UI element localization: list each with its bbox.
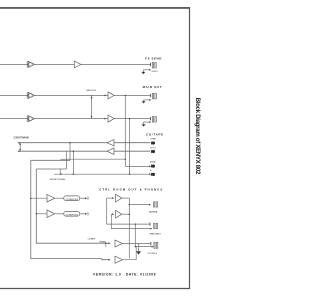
node bus bar A: [87, 197, 89, 200]
svg-text:L/MONO: L/MONO: [150, 161, 156, 163]
op-amp CD in R (left pointing): [107, 148, 114, 154]
svg-text:CD/TAPE: CD/TAPE: [88, 237, 97, 240]
svg-text:CTRL ROOM OUT & PHONES: CTRL ROOM OUT & PHONES: [99, 187, 162, 191]
wire switch drop to record: [59, 169, 61, 174]
wire pill row B feed: [36, 213, 47, 215]
wire pill A out: [80, 197, 86, 199]
wire main mix bus vertical: [91, 95, 93, 118]
wire switch common R: [36, 168, 66, 170]
svg-text:VERSION: 1.0 DATE: 01/2008: VERSION: 1.0 DATE: 01/2008: [93, 273, 156, 277]
op-amp pill row B: [47, 210, 55, 218]
wire switch drop R: [65, 151, 67, 169]
wire ctrl R out: [122, 213, 130, 215]
op-amp main out R: [108, 115, 114, 122]
node main mix bus arrow: [104, 94, 106, 96]
ground FX: [141, 70, 145, 74]
node bus bar B: [87, 212, 89, 215]
connector RCA CD in R: [151, 150, 155, 153]
svg-text:CTRL ROOM OUT: CTRL ROOM OUT: [149, 233, 162, 235]
connector RCA CD in L: [151, 141, 155, 144]
svg-text:MAIN MIX: MAIN MIX: [86, 89, 97, 92]
svg-text:WHITE: WHITE: [150, 139, 156, 141]
wire main out R row: [0, 118, 150, 120]
wire ctrl bus L: [107, 198, 150, 224]
wire record feed: [54, 173, 150, 175]
node CD in pair link: [19, 143, 21, 152]
svg-text:MONO: MONO: [152, 71, 158, 73]
op-amp CD in L (left pointing): [107, 140, 114, 146]
wire pill row A feed: [31, 197, 47, 199]
wire record L to RCA out: [125, 165, 150, 167]
svg-text:RECORD OUT (USB): RECORD OUT (USB): [50, 179, 65, 181]
jack FX SEND: [150, 62, 156, 68]
node arrow into main R amp: [104, 118, 106, 120]
border frame right: [189, 7, 191, 289]
wire switch common L: [31, 159, 70, 161]
wire outer loop: [31, 160, 109, 259]
border frame top: [0, 7, 190, 9]
wire switch drop L: [69, 143, 71, 161]
wire phones R out riser: [123, 247, 152, 260]
jack MAIN OUT L: [150, 93, 156, 99]
switch pill B: [64, 212, 80, 217]
node arrow phones R: [108, 259, 110, 261]
border frame bottom: [0, 288, 190, 290]
connector RCA CD out L: [151, 165, 155, 168]
jack phones: [150, 242, 157, 249]
node CD in L left arrow: [17, 142, 19, 144]
svg-text:RED: RED: [151, 147, 157, 149]
wire into ctrl amp R: [111, 213, 112, 215]
svg-text:CD/TAPE: CD/TAPE: [146, 133, 163, 137]
ground main R: [142, 122, 146, 127]
op-amp main out L: [108, 92, 114, 99]
op-amp ctrl room R: [116, 210, 122, 218]
wire main L to record tap: [124, 95, 126, 166]
op-amp phones R: [115, 256, 123, 263]
wire amp B to pill: [55, 213, 64, 215]
wire pill B out: [80, 213, 86, 215]
ground phones: [136, 244, 141, 255]
ground main L: [142, 100, 146, 104]
svg-text:CD INPUT TO MAIN MIX: CD INPUT TO MAIN MIX: [14, 137, 30, 140]
wire CD tape in L row: [19, 142, 150, 144]
svg-text:CD/TAPE MIX: CD/TAPE MIX: [65, 214, 78, 217]
op-amp pill row A: [47, 194, 55, 202]
jack ctrl room L: [154, 202, 158, 207]
connector RCA CD out R: [151, 173, 155, 176]
op-amp summing FX: [27, 61, 34, 67]
wire inner loop: [36, 169, 108, 243]
wire phones L out: [123, 243, 151, 245]
wire into ctrl amp L: [107, 197, 113, 199]
wire main out L row: [0, 94, 151, 96]
op-amp phones L: [115, 240, 123, 247]
node arrow phones L: [108, 242, 110, 244]
wire amp A to pill: [55, 197, 64, 199]
svg-text:CD/TAPE MIX: CD/TAPE MIX: [65, 198, 78, 201]
wire ctrl bus R: [111, 214, 151, 228]
jack MAIN OUT R: [150, 117, 156, 123]
jack ctrl room R: [154, 223, 158, 228]
svg-text:MAIN OUT: MAIN OUT: [143, 85, 162, 89]
op-amp ctrl room L: [116, 194, 122, 202]
wire main L jack sleeve: [144, 99, 150, 101]
wire main R to record tap: [129, 119, 131, 175]
wire main tap to RCA bus: [61, 158, 126, 160]
op-amp summing main R: [27, 115, 34, 121]
svg-text:BAL/UNBAL: BAL/UNBAL: [149, 210, 159, 213]
wire main R jack sleeve: [144, 121, 150, 123]
wire record tap R: [72, 151, 74, 174]
svg-text:PHONES: PHONES: [148, 253, 158, 255]
wire FX send row: [0, 63, 150, 65]
op-amp summing main L: [27, 92, 34, 98]
switch pill A: [64, 196, 80, 201]
junction dots: [30, 95, 136, 248]
svg-text:Block Diagram of XENYX 802: Block Diagram of XENYX 802: [194, 98, 200, 175]
svg-text:FX SEND: FX SEND: [145, 56, 161, 60]
wire CD tape in R row: [19, 150, 150, 152]
node CD in R left arrow: [17, 150, 19, 152]
wire FX jack sleeve: [143, 69, 149, 71]
op-amp FX output buffer: [74, 61, 81, 68]
potentiometer phones wiper: [105, 243, 107, 247]
wire ctrl L out: [122, 197, 130, 199]
